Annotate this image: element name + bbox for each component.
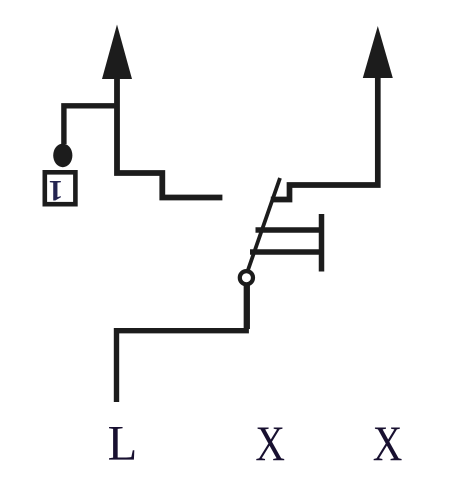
svg-text:X: X bbox=[255, 415, 285, 471]
switch S1 lever (moving contact) bbox=[248, 178, 280, 270]
switch S1 lower contact bar bbox=[250, 249, 323, 255]
svg-text:1: 1 bbox=[48, 174, 63, 207]
switch S1 contact rail (vertical bar) bbox=[319, 214, 325, 272]
svg-text:L: L bbox=[108, 415, 138, 471]
wire: horizontal run to terminal L bbox=[117, 331, 249, 402]
indicator lamp E1 (filled blob) bbox=[53, 144, 72, 168]
wire: branch from left shaft to indicator lamp bbox=[64, 106, 115, 144]
arrow terminal A2 (right outgoing line arrowhead) bbox=[363, 26, 393, 78]
switch S1 pivot (open circle) bbox=[240, 271, 253, 284]
switch S1 upper contact bar bbox=[256, 227, 324, 233]
wire: left arrow shaft with step to switch contact bbox=[117, 76, 222, 198]
wire: pivot down and across to terminal L bbox=[244, 285, 250, 330]
wire: right arrow shaft with step down to switch lever top bbox=[271, 75, 378, 200]
arrow terminal A1 (left outgoing line arrowhead) bbox=[102, 25, 132, 80]
svg-text:X: X bbox=[373, 415, 403, 471]
label box for lamp bbox=[45, 172, 76, 204]
